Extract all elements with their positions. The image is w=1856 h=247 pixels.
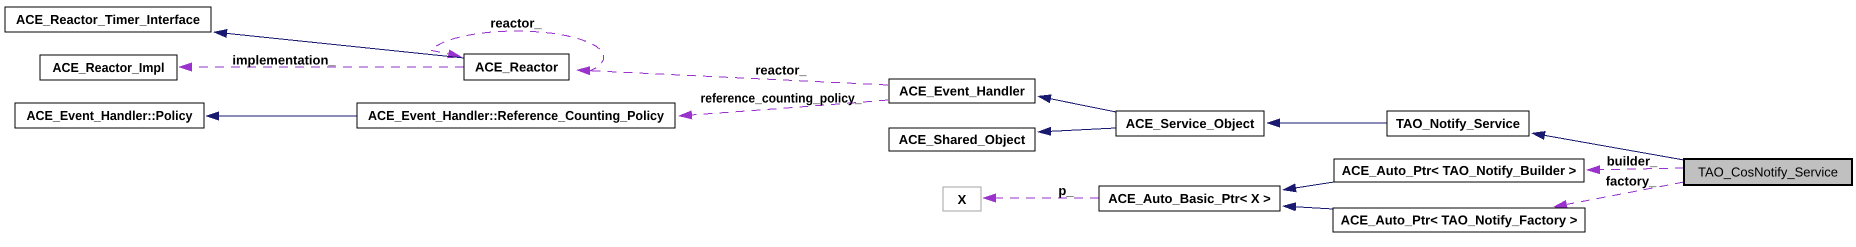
svg-text:ACE_Auto_Ptr< TAO_Notify_Build: ACE_Auto_Ptr< TAO_Notify_Builder > [1342, 163, 1577, 178]
svg-text:ACE_Event_Handler::Reference_C: ACE_Event_Handler::Reference_Counting_Po… [368, 108, 665, 123]
svg-text:implementation_: implementation_ [232, 53, 336, 68]
svg-text:ACE_Auto_Basic_Ptr< X >: ACE_Auto_Basic_Ptr< X > [1108, 191, 1271, 206]
svg-text:ACE_Event_Handler: ACE_Event_Handler [899, 84, 1025, 99]
svg-text:ACE_Reactor_Timer_Interface: ACE_Reactor_Timer_Interface [16, 12, 200, 27]
svg-text:reactor_: reactor_ [490, 16, 542, 31]
svg-text:reactor_: reactor_ [755, 63, 807, 78]
svg-text:TAO_Notify_Service: TAO_Notify_Service [1396, 116, 1520, 131]
svg-text:reference_counting_policy_: reference_counting_policy_ [701, 91, 863, 106]
svg-text:TAO_CosNotify_Service: TAO_CosNotify_Service [1698, 165, 1838, 180]
svg-text:ACE_Shared_Object: ACE_Shared_Object [899, 132, 1026, 147]
svg-text:X: X [958, 192, 967, 207]
svg-text:factory_: factory_ [1606, 174, 1657, 189]
svg-text:ACE_Auto_Ptr< TAO_Notify_Facto: ACE_Auto_Ptr< TAO_Notify_Factory > [1341, 213, 1578, 228]
svg-text:p_: p_ [1058, 183, 1074, 198]
svg-text:ACE_Event_Handler::Policy: ACE_Event_Handler::Policy [27, 108, 194, 123]
svg-text:builder_: builder_ [1607, 154, 1658, 169]
svg-text:ACE_Reactor: ACE_Reactor [475, 60, 558, 75]
svg-text:ACE_Reactor_Impl: ACE_Reactor_Impl [53, 60, 165, 75]
svg-text:ACE_Service_Object: ACE_Service_Object [1126, 116, 1255, 131]
